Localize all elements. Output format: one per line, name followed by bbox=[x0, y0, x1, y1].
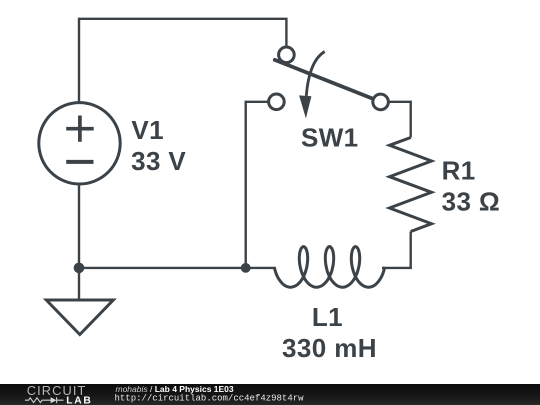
wire top rail bbox=[79, 19, 286, 104]
inductor L1 bbox=[274, 247, 385, 288]
svg-text:SW1: SW1 bbox=[301, 123, 359, 153]
svg-text:33 Ω: 33 Ω bbox=[442, 187, 501, 217]
logo symbol resistor-diode bbox=[25, 397, 64, 403]
wire resistor bottom to inductor bbox=[382, 232, 411, 268]
svg-text:33 V: 33 V bbox=[131, 146, 186, 176]
svg-text:LAB: LAB bbox=[66, 395, 92, 405]
terminal right bbox=[373, 94, 389, 110]
arrow bbox=[306, 52, 324, 97]
svg-text:mohabis / Lab 4 Physics 1E03: mohabis / Lab 4 Physics 1E03 bbox=[116, 384, 234, 394]
svg-text:V1: V1 bbox=[131, 115, 164, 145]
svg-text:R1: R1 bbox=[442, 156, 476, 186]
switch SW1 bbox=[269, 47, 389, 118]
node junction dot left bbox=[74, 263, 85, 274]
resistor R1 bbox=[390, 138, 432, 232]
wire switch right terminal to resistor bbox=[389, 102, 411, 138]
wire V1 bottom to ground node bbox=[78, 183, 80, 268]
svg-text:330 mH: 330 mH bbox=[282, 333, 377, 363]
wire switch left terminal to node bbox=[246, 102, 269, 268]
wire bottom rail bbox=[79, 267, 275, 269]
terminal top bbox=[279, 47, 295, 63]
svg-text:L1: L1 bbox=[312, 302, 343, 332]
voltage source V1 bbox=[39, 103, 120, 184]
blade bbox=[275, 60, 375, 100]
terminal left bbox=[269, 94, 285, 110]
svg-text:http://circuitlab.com/cc4ef4z9: http://circuitlab.com/cc4ef4z98t4rw bbox=[115, 393, 305, 403]
node junction dot middle bbox=[241, 263, 251, 273]
footer bar bbox=[0, 384, 540, 405]
ground bbox=[46, 268, 113, 335]
